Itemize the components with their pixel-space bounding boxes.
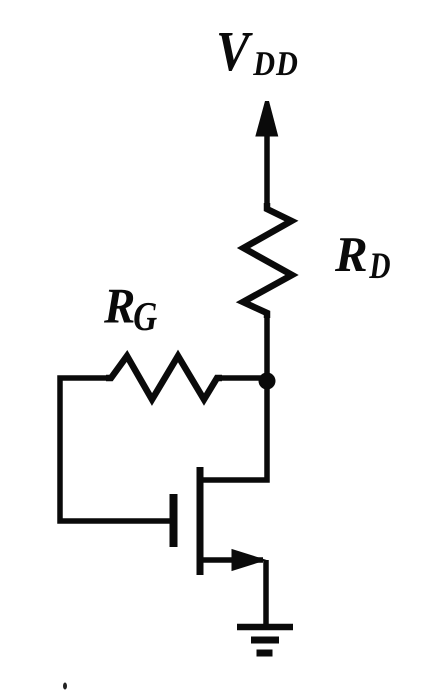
wire drain: channel to node [202,381,267,480]
wire RG left terminal to gate (feedback loop) [60,378,170,521]
wire VDD arrow to RD top [264,132,270,206]
wire source of Q1 [202,557,263,563]
net VDD label [219,33,297,75]
transistor Q1 channel bar [197,467,204,575]
ground [237,627,293,653]
source arrow of Q1 [232,550,265,571]
power arrow to VDD [255,101,278,137]
transistor Q1 gate bar [170,494,178,547]
resistor RG [106,356,222,400]
wire source to ground [263,560,269,627]
wire RD bottom to node [264,314,270,381]
label RD [335,238,390,278]
wire RG right terminal to node [215,375,267,381]
node drain junction [259,373,276,390]
resistor RD [243,203,292,318]
label RG [104,290,157,331]
